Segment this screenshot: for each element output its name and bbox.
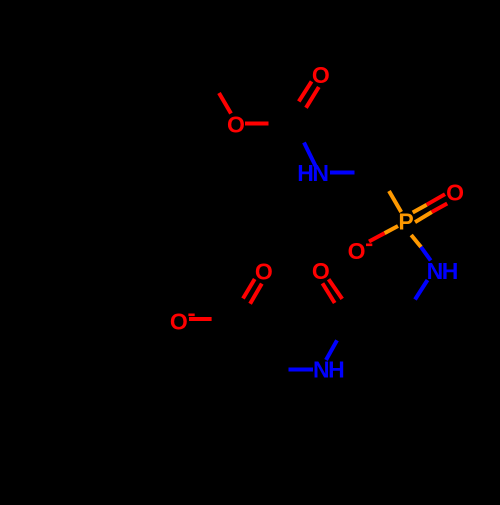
bond O2-C1 ester oxygen right half (red) [245,122,269,126]
bond O2-CH2 benzyl ester oxygen upper-left half (red) [219,93,231,114]
svg-text:NH: NH [313,357,344,383]
bond C1=O1 carbamate carbonyl double bond (red halves) [299,81,312,101]
svg-text:O: O [348,238,366,264]
bond N2-CH lower-left half (blue) [415,280,428,300]
bond P-N2 (orange then blue) [411,235,421,247]
charge minus on O4 [366,244,372,247]
svg-text:O: O [227,112,245,138]
bond CH2a-P half (orange) [389,191,401,212]
bond P=O3 double bond line 1 (orange then red) [413,205,427,213]
bond P=O3 double bond line 2 (orange then red) [415,212,432,222]
svg-text:O: O [312,258,330,284]
bond C1-N1 carbamate N upper half (blue) [304,143,317,170]
svg-text:O: O [312,62,330,88]
svg-text:NH: NH [427,258,458,284]
bond C3=O6 carboxylate carbonyl double bond (red halves) [243,279,255,299]
bond N3-CH left half (blue) [289,368,314,372]
bond N1-CH2a right half (blue) [330,171,355,175]
bond C2=O5 amide carbonyl double bond (red halves) [323,283,335,303]
charge minus on O7 [188,314,194,317]
svg-text:P: P [398,209,413,235]
bond N3-C2 upper-right half (blue) [326,340,337,360]
svg-text:O: O [255,259,273,285]
svg-text:O: O [446,180,464,206]
svg-text:HN: HN [297,160,328,186]
bond O7(-)-C3 right half (red) [189,317,212,321]
svg-text:O: O [170,308,188,334]
bond P-O4(-) (orange then red) [385,226,399,233]
